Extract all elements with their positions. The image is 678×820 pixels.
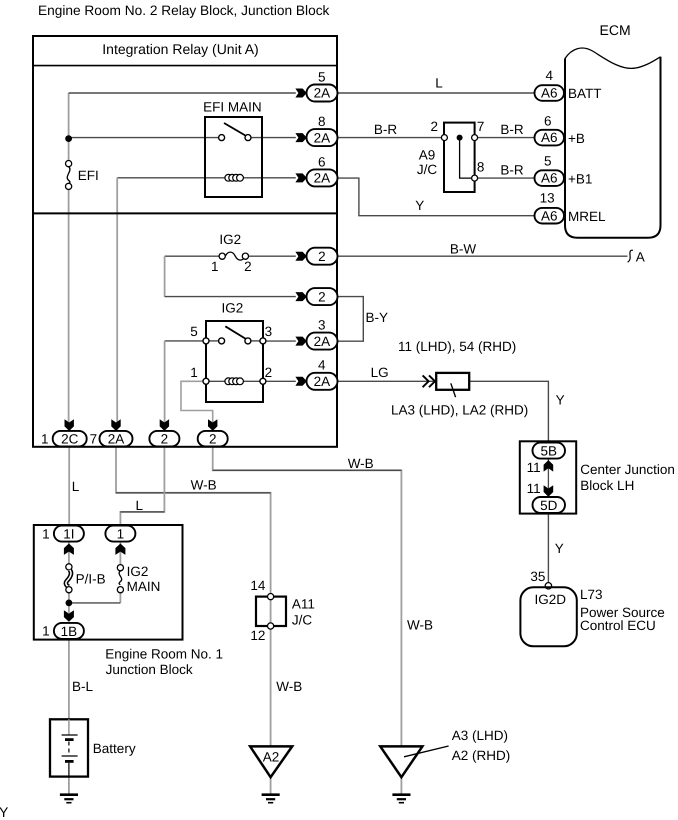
ECM connector oval A6 pin13 MREL: [535, 208, 565, 224]
connector oval 1B (junction block): [54, 623, 84, 639]
fuse IG2 (Integration Relay): [219, 253, 225, 259]
svg-text:7: 7: [90, 431, 98, 446]
wire: IG2 relay coil 1 to bottom connector 2: [181, 381, 213, 431]
svg-text:Engine Room No. 1: Engine Room No. 1: [105, 646, 223, 661]
svg-text:LG: LG: [371, 365, 389, 380]
wire: EFI junction to EFI MAIN contact: [69, 137, 219, 139]
Engine Room No.2 Relay Block: Integration Relay (Unit A) outline: [33, 36, 337, 447]
svg-text:EFI: EFI: [78, 168, 99, 183]
svg-text:6: 6: [318, 154, 326, 169]
svg-text:2A: 2A: [314, 86, 331, 101]
A9 J/C pin7 circle: [472, 135, 478, 141]
connector oval 2 (bottom fourth): [198, 431, 228, 447]
wire: IG2 relay contact 5 lead: [165, 340, 204, 342]
svg-text:2: 2: [318, 249, 326, 264]
splice A squiggle at end of B-W wire: [628, 250, 633, 262]
svg-text:Y: Y: [0, 804, 9, 820]
connector arrow into bottom oval 2 (fourth): [208, 419, 217, 431]
G_WIRES: [69, 93, 628, 794]
svg-text:A6: A6: [541, 86, 558, 101]
svg-text:1: 1: [190, 365, 198, 380]
Power Source Control ECU (L73) outline: [520, 587, 576, 646]
connector oval 2 (lower): [307, 288, 338, 305]
wire W-B: connector 2 to ground A3: [213, 447, 402, 746]
svg-text:11 (LHD), 54 (RHD): 11 (LHD), 54 (RHD): [398, 339, 516, 354]
svg-text:Y: Y: [415, 198, 424, 213]
svg-text:8: 8: [318, 114, 326, 129]
ground triangle A2: [250, 746, 292, 777]
wire: EFI MAIN coil to connector 2A pin7 vertical: [116, 178, 118, 432]
svg-text:7: 7: [477, 119, 485, 134]
Center Junction Block LH outline: [520, 441, 576, 513]
connector arrow into 2C pin1 (bottom row): [65, 419, 74, 431]
arrow up into 5B: [544, 460, 554, 472]
svg-text:Engine Room No. 2 Relay Block,: Engine Room No. 2 Relay Block, Junction …: [38, 3, 330, 18]
svg-text:11: 11: [527, 460, 541, 475]
svg-text:IG2: IG2: [222, 300, 244, 315]
svg-text:1B: 1B: [61, 624, 78, 639]
wire: IG2 relay coil 2 to connector 2A pin4: [263, 380, 296, 382]
connector oval 1 (junction block): [105, 526, 135, 542]
wire B-R: 2A pin8 to A9 J/C pin2: [337, 137, 442, 139]
wire Y: CJB 5D to IG2D pin 35: [547, 514, 549, 583]
svg-text:Integration Relay (Unit A): Integration Relay (Unit A): [102, 41, 258, 57]
wire B-R: A9 J/C pin7 to ECM +B: [478, 137, 535, 139]
svg-text:A3 (LHD): A3 (LHD): [452, 728, 508, 743]
fuse EFI: [66, 161, 72, 167]
svg-text:Control ECU: Control ECU: [580, 618, 656, 633]
svg-text:Y: Y: [555, 541, 564, 556]
svg-text:3: 3: [318, 318, 326, 333]
connector arrow into 2A pin8: [295, 133, 306, 142]
svg-text:2A: 2A: [108, 431, 125, 446]
A9 J/C internal link: [460, 140, 472, 178]
ground symbol below battery: [60, 793, 78, 796]
svg-text:+B: +B: [568, 131, 585, 146]
wire B-Y: connector 2 to connector 2A pin3 jumper: [337, 297, 363, 342]
junction dot: junction block bus: [66, 600, 73, 607]
svg-text:Center Junction: Center Junction: [580, 462, 675, 477]
wire: fuse IG2 MAIN bottom to junction dot: [119, 593, 121, 603]
svg-text:13: 13: [540, 190, 555, 205]
fusible link LA3/LA2 body: [436, 373, 469, 390]
svg-text:MREL: MREL: [568, 209, 606, 224]
svg-text:5D: 5D: [540, 498, 558, 513]
svg-text:2C: 2C: [61, 431, 79, 446]
wire: IG2 relay coil row: [206, 380, 263, 382]
fusible link tick mark: [451, 383, 456, 397]
svg-text:35: 35: [530, 569, 545, 584]
svg-text:2: 2: [161, 431, 169, 446]
ECM outline: [565, 57, 661, 238]
relay IG2 coil: [225, 378, 232, 385]
svg-text:L: L: [72, 479, 80, 494]
svg-text:5: 5: [544, 154, 552, 169]
relay IG2 coil terminal circles: [203, 378, 209, 384]
wire: IG2 fuse feed vertical: [164, 256, 166, 296]
connector oval 2A pin7: [100, 431, 133, 447]
wire: 2A pin5 feed, horizontal to connector arrow: [69, 92, 296, 94]
wire: IG2 fuse feed left segment: [165, 255, 220, 257]
wire: junction block 1I to fuse P/I-B: [68, 542, 70, 564]
battery plate short bottom: [65, 760, 74, 763]
connector oval 2 (upper): [307, 248, 338, 265]
svg-text:B-R: B-R: [374, 122, 398, 137]
connector oval 2A pin3: [307, 333, 338, 350]
svg-text:J/C: J/C: [292, 613, 313, 628]
wire B-W: connector 2 to splice A: [337, 255, 628, 257]
connector oval 2 (bottom third): [149, 431, 179, 447]
svg-text:2: 2: [244, 259, 252, 274]
connector arrow into 2A pin7 (bottom row): [111, 419, 120, 431]
svg-text:12: 12: [250, 628, 265, 643]
svg-text:W-B: W-B: [348, 456, 374, 471]
arrow up below 1I: [64, 544, 74, 555]
svg-text:A6: A6: [541, 208, 558, 223]
arrow down into 5D: [544, 485, 554, 497]
wire: EFI fuse top lead: [68, 140, 70, 161]
svg-text:2A: 2A: [314, 334, 331, 349]
connector oval 5B (CJB): [533, 443, 566, 459]
battery plate long top: [62, 734, 78, 736]
svg-text:2: 2: [265, 365, 273, 380]
ECM connector oval A6 pin6 +B: [535, 130, 565, 146]
ground symbol below A3: [392, 793, 410, 796]
fuse IG2 MAIN: [117, 565, 123, 571]
connector arrow into 2A pin4: [295, 377, 306, 386]
svg-text:2: 2: [431, 119, 439, 134]
svg-text:MAIN: MAIN: [127, 579, 161, 594]
arrow up below 1: [115, 544, 125, 555]
svg-text:IG2: IG2: [219, 232, 241, 247]
svg-text:A6: A6: [541, 171, 558, 186]
wire: feed to lower connector 2: [165, 296, 296, 298]
wire L: connector 2C to junction block 1I: [68, 447, 70, 526]
A11 J/C pin12 circle: [268, 623, 274, 629]
svg-text:Block LH: Block LH: [580, 478, 634, 493]
svg-text:+B1: +B1: [568, 171, 592, 186]
svg-text:6: 6: [544, 114, 552, 129]
svg-text:IG2D: IG2D: [535, 592, 567, 607]
wire: EFI fuse bottom to connector 2C: [68, 189, 70, 431]
wire L: 2A pin5 to ECM BATT: [337, 92, 535, 94]
connector arrow into lower oval 2: [295, 292, 306, 301]
connector oval 2A pin4: [307, 373, 338, 390]
wire: fusible link to Center Junction Block 5B: [469, 381, 548, 442]
svg-text:1I: 1I: [63, 527, 74, 542]
svg-text:P/I-B: P/I-B: [76, 572, 106, 587]
battery outline: [50, 719, 88, 776]
svg-text:3: 3: [265, 324, 273, 339]
Engine Room No.1 Junction Block outline: [34, 525, 183, 640]
svg-text:ECM: ECM: [600, 22, 631, 38]
A9 J/C pin2 circle: [441, 135, 447, 141]
svg-text:B-W: B-W: [450, 242, 477, 257]
relay EFI MAIN switch blade: [224, 123, 246, 136]
svg-text:1: 1: [42, 624, 50, 639]
svg-text:B-R: B-R: [500, 162, 524, 177]
battery dashed link: [68, 742, 70, 756]
connector oval 1I (junction block): [54, 526, 84, 542]
wire LG: 2A pin4 to fusible link LA3: [337, 380, 436, 382]
svg-text:B-L: B-L: [72, 679, 94, 694]
fuse P/I-B: [66, 564, 72, 570]
svg-text:L: L: [435, 76, 443, 91]
junction connector A9 J/C outline: [444, 123, 475, 192]
connector arrow into 2A pin3: [295, 337, 306, 346]
wire W-B: connector 2A pin7 to A11 J/C pin14: [116, 447, 271, 594]
wire: junction block 1 to fuse IG2 MAIN: [119, 542, 121, 565]
svg-text:8: 8: [477, 160, 485, 175]
G_CONNECTORS: [53, 85, 565, 639]
svg-text:2A: 2A: [314, 374, 331, 389]
svg-text:B-Y: B-Y: [366, 310, 389, 325]
svg-text:2: 2: [209, 431, 217, 446]
IG2D pin 35 circle: [545, 583, 551, 589]
relay EFI MAIN contact circles: [219, 135, 225, 141]
A11 J/C pin14 circle: [268, 594, 274, 600]
relay IG2 outline: [206, 321, 263, 402]
svg-text:B-R: B-R: [500, 122, 524, 137]
junction connector A11 J/C outline: [256, 597, 286, 626]
battery plate short top: [65, 738, 74, 741]
svg-text:1: 1: [117, 527, 125, 542]
svg-text:W-B: W-B: [407, 618, 433, 633]
ECM connector oval A6 pin4 BATT: [535, 85, 565, 101]
connector oval 5D (CJB): [533, 497, 566, 513]
svg-text:1: 1: [211, 259, 219, 274]
relay EFI MAIN coil: [225, 174, 232, 181]
connector oval 2A pin5: [307, 85, 338, 102]
svg-text:A6: A6: [541, 130, 558, 145]
svg-text:Junction Block: Junction Block: [106, 662, 193, 677]
battery internal lead top: [68, 719, 70, 735]
wire: EFI MAIN coil row horizontal: [117, 177, 296, 179]
svg-text:14: 14: [250, 578, 266, 593]
A9 J/C internal junction dot: [457, 135, 463, 141]
A9 J/C pin8 circle: [472, 175, 478, 181]
wire: EFI MAIN contact to 2A pin8: [251, 137, 296, 139]
wire L: connector 2 to junction block 1: [120, 447, 164, 526]
svg-text:EFI MAIN: EFI MAIN: [203, 99, 262, 114]
ground triangle A3(LHD)/A2(RHD): [380, 746, 422, 777]
wire B-R: A9 J/C pin8 to ECM +B1: [478, 177, 535, 179]
connector arrow into bottom oval 2 (third): [160, 419, 169, 431]
battery internal lead bottom: [68, 763, 70, 777]
fusible link LA3/LA2 chevrons: [423, 375, 435, 387]
wire: junction dot horizontal link: [69, 602, 121, 604]
junction dot: EFI feed: [65, 135, 72, 142]
Integration Relay header separator: [33, 65, 337, 67]
wire: A3 triangle to ground: [400, 777, 402, 794]
Integration Relay section divider: [33, 212, 337, 214]
connector arrow into 2A pin5: [295, 89, 306, 98]
battery plate long bottom: [62, 755, 78, 757]
wire: CJB internal 5B-5D link: [547, 459, 549, 498]
connector oval 2A pin6: [307, 169, 338, 186]
svg-text:1: 1: [41, 431, 49, 446]
wire: 2A pin5 feed, vertical from EFI junction: [68, 93, 70, 138]
svg-text:4: 4: [318, 358, 326, 373]
connector oval 2A pin8: [307, 129, 338, 146]
svg-text:W-B: W-B: [191, 477, 217, 492]
relay IG2 switch blade: [225, 326, 246, 339]
svg-text:L73: L73: [580, 587, 603, 602]
wire: fuse P/I-B bottom to junction dot: [68, 593, 70, 613]
wire: IG2 relay contact 5 to bottom connector 2: [164, 341, 166, 432]
connector oval 2C pin1: [53, 431, 87, 447]
svg-text:Y: Y: [556, 393, 565, 408]
svg-text:A2 (RHD): A2 (RHD): [452, 748, 511, 763]
relay EFI MAIN outline: [205, 117, 262, 197]
wire: through A11 J/C: [270, 600, 272, 623]
svg-text:5: 5: [318, 69, 326, 84]
wire: battery to ground: [68, 777, 70, 795]
svg-text:A11: A11: [292, 597, 315, 612]
svg-text:4: 4: [545, 68, 553, 83]
wire B-L: junction block 1B to battery: [68, 640, 70, 720]
wire: IG2 fuse to connector 2: [248, 255, 295, 257]
svg-text:2: 2: [318, 289, 326, 304]
svg-text:2A: 2A: [314, 171, 331, 186]
wire W-B: A11 J/C pin12 to ground A2: [270, 629, 272, 745]
svg-text:Battery: Battery: [93, 741, 136, 756]
svg-text:1: 1: [42, 526, 50, 541]
svg-text:LA3 (LHD), LA2 (RHD): LA3 (LHD), LA2 (RHD): [391, 403, 528, 418]
svg-text:BATT: BATT: [568, 86, 602, 101]
svg-text:J/C: J/C: [417, 162, 438, 177]
svg-text:W-B: W-B: [276, 679, 302, 694]
svg-text:A9: A9: [419, 148, 436, 163]
svg-text:A: A: [636, 249, 645, 264]
wire: IG2 relay inner contact links: [206, 340, 219, 342]
svg-text:5B: 5B: [541, 443, 558, 458]
connector arrow into 2A pin6: [295, 173, 306, 182]
svg-text:A2: A2: [263, 749, 280, 764]
svg-text:11: 11: [527, 481, 541, 496]
arrow down above 1B: [64, 610, 74, 621]
ground symbol below A2: [262, 793, 280, 796]
relay IG2 contact terminal circles: [203, 338, 209, 344]
svg-text:IG2: IG2: [127, 564, 149, 579]
wire: A2 triangle to ground: [270, 777, 272, 794]
svg-text:L: L: [136, 498, 144, 513]
svg-text:5: 5: [190, 324, 198, 339]
wire: IG2 relay contact 3 to connector 2A pin3: [263, 340, 296, 342]
ECM connector oval A6 pin5 +B1: [535, 170, 565, 186]
connector arrow into upper oval 2: [295, 252, 306, 261]
svg-text:2A: 2A: [314, 130, 331, 145]
callout line to A3/A2 labels: [404, 746, 449, 757]
wire Y: 2A pin6 to ECM MREL: [337, 178, 535, 216]
